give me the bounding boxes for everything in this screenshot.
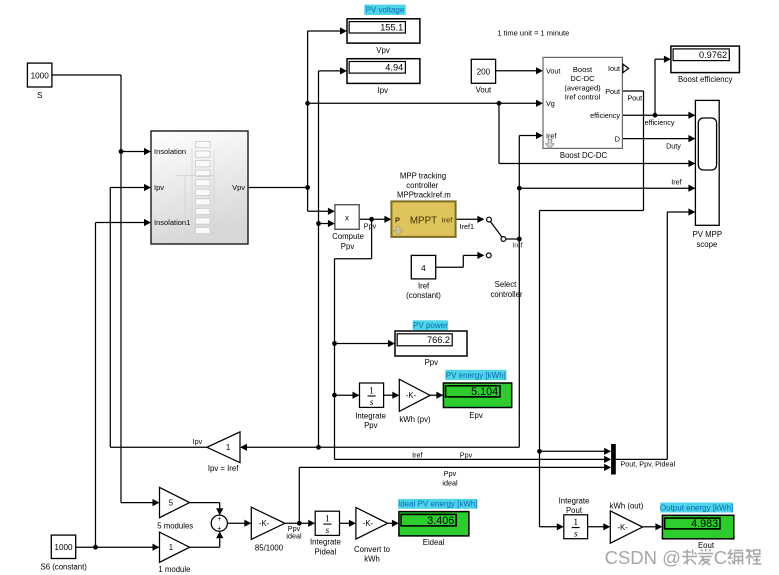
wire Ipv display net bbox=[316, 67, 347, 449]
svg-text:efficiency: efficiency bbox=[645, 118, 675, 127]
wire kWh pv chain bbox=[384, 392, 444, 399]
svg-text:Eout: Eout bbox=[698, 541, 715, 550]
display Vpv 155.1 bbox=[347, 19, 420, 43]
svg-text:-K-: -K- bbox=[363, 519, 374, 528]
label kWh (pv) bbox=[399, 415, 431, 424]
label efficiency wire bbox=[645, 118, 675, 127]
wire Ppv net bbox=[332, 216, 611, 463]
scope PV MPP bbox=[693, 100, 722, 248]
constant S6 1000 bbox=[41, 535, 88, 571]
svg-text:3.406: 3.406 bbox=[427, 515, 454, 527]
svg-text:1: 1 bbox=[369, 386, 374, 396]
svg-text:Iref: Iref bbox=[442, 215, 454, 224]
wire efficiency net bbox=[622, 56, 695, 119]
port marker Iout unconnected bbox=[623, 64, 629, 73]
svg-text:S6 (constant): S6 (constant) bbox=[41, 562, 88, 571]
label Eideal bbox=[423, 538, 445, 547]
wire Iref net bbox=[240, 132, 695, 451]
svg-text:Ipv = Iref: Ipv = Iref bbox=[208, 464, 239, 473]
svg-text:Ipv: Ipv bbox=[378, 86, 389, 95]
svg-text:ideal: ideal bbox=[442, 479, 458, 488]
svg-text:Insolation: Insolation bbox=[154, 147, 186, 156]
svg-text:Compute: Compute bbox=[332, 232, 364, 241]
svg-text:P: P bbox=[395, 215, 400, 224]
svg-text:0.9762: 0.9762 bbox=[699, 50, 727, 60]
annotation Output energy kWh bbox=[660, 503, 733, 513]
svg-text:5.104: 5.104 bbox=[471, 386, 498, 398]
svg-text:Ppv: Ppv bbox=[425, 358, 439, 367]
svg-text:Iref: Iref bbox=[418, 281, 430, 290]
label Eout bbox=[698, 541, 715, 550]
wire Ipv feedback net bbox=[110, 184, 207, 447]
svg-text:1 time unit = 1 minute: 1 time unit = 1 minute bbox=[497, 29, 569, 38]
label Ppv display bbox=[425, 358, 439, 367]
svg-text:Ipv: Ipv bbox=[193, 437, 203, 446]
constant S 1000 bbox=[27, 63, 52, 100]
gain 1 module bbox=[160, 532, 190, 562]
svg-text:Iref: Iref bbox=[512, 241, 522, 250]
svg-text:Vpv: Vpv bbox=[232, 183, 245, 192]
svg-text:Eideal: Eideal bbox=[423, 538, 445, 547]
svg-text:kWh (out): kWh (out) bbox=[610, 501, 644, 510]
svg-text:Select: Select bbox=[495, 280, 518, 289]
label Pout wire bbox=[627, 93, 643, 102]
label Ppv wire bottom bbox=[460, 450, 473, 459]
display Ppv 766.2 bbox=[395, 331, 467, 356]
svg-text:s: s bbox=[370, 398, 374, 408]
sum block bbox=[211, 515, 227, 532]
svg-text:(constant): (constant) bbox=[406, 291, 441, 300]
watermark CSDN bbox=[605, 547, 762, 568]
svg-text:s: s bbox=[325, 526, 329, 536]
label 5 modules bbox=[157, 522, 193, 531]
label Integrate Pout bbox=[559, 496, 590, 515]
label Boost efficiency bbox=[678, 75, 733, 84]
display Eout 4.983 bbox=[662, 515, 733, 539]
svg-text:MPPT: MPPT bbox=[410, 216, 437, 227]
svg-text:Iref: Iref bbox=[412, 450, 422, 459]
svg-text:Ipv: Ipv bbox=[154, 183, 164, 192]
svg-text:Ppv: Ppv bbox=[364, 222, 377, 231]
svg-text:ideal: ideal bbox=[286, 532, 302, 541]
wire sum chain bbox=[190, 503, 252, 548]
svg-text:+: + bbox=[217, 525, 221, 532]
label Ipv bbox=[378, 86, 389, 95]
svg-text:Pideal: Pideal bbox=[315, 547, 337, 556]
svg-text:Boost efficiency: Boost efficiency bbox=[678, 75, 733, 84]
svg-text:Epv: Epv bbox=[469, 411, 483, 420]
svg-text:kWh: kWh bbox=[364, 555, 380, 564]
label Iref wire bottom bbox=[412, 450, 422, 459]
display Epv 5.104 bbox=[443, 383, 511, 408]
label Epv bbox=[469, 411, 483, 420]
svg-text:5 modules: 5 modules bbox=[157, 522, 193, 531]
svg-text:4.983: 4.983 bbox=[691, 518, 718, 530]
svg-text:155.1: 155.1 bbox=[380, 22, 403, 32]
svg-text:Pout: Pout bbox=[627, 93, 642, 102]
svg-text:PV MPP: PV MPP bbox=[693, 230, 722, 239]
svg-text:Vout: Vout bbox=[546, 66, 560, 75]
wire S6 insolation1 net bbox=[76, 219, 160, 551]
gain kWh out bbox=[610, 511, 642, 543]
svg-text:1 module: 1 module bbox=[158, 565, 190, 574]
annotation PV voltage bbox=[364, 5, 405, 15]
svg-text:Vpv: Vpv bbox=[376, 46, 390, 55]
integrator Integrate Ppv bbox=[360, 383, 384, 408]
svg-text:x: x bbox=[345, 213, 349, 222]
label 1 module bbox=[158, 565, 190, 574]
svg-text:Vg: Vg bbox=[546, 99, 555, 108]
svg-text:+: + bbox=[217, 516, 221, 523]
svg-text:85/1000: 85/1000 bbox=[255, 544, 284, 553]
annotation Ideal PV energy kWh bbox=[398, 499, 478, 509]
block Compute Ppv bbox=[332, 205, 364, 251]
wire mux to scope bbox=[616, 208, 696, 459]
wire Iref1 MPPT to switch bbox=[456, 216, 485, 223]
integrator Integrate Pout bbox=[564, 515, 588, 540]
svg-text:766.2: 766.2 bbox=[427, 335, 450, 345]
label Convert to kWh bbox=[354, 545, 391, 564]
mux Pout Ppv Pideal bbox=[611, 444, 675, 475]
svg-text:-K-: -K- bbox=[259, 519, 270, 528]
wire kWh out chain bbox=[588, 523, 663, 530]
svg-text:-K-: -K- bbox=[617, 523, 628, 532]
svg-text:Integrate: Integrate bbox=[310, 538, 341, 547]
annotation 1 time unit = 1 minute bbox=[497, 29, 569, 38]
svg-text:1000: 1000 bbox=[54, 543, 73, 552]
svg-text:Integrate: Integrate bbox=[355, 411, 386, 420]
gain Convert to kWh bbox=[356, 508, 388, 540]
svg-text:Iref control: Iref control bbox=[565, 93, 601, 102]
svg-text:PV energy [kWh]: PV energy [kWh] bbox=[446, 371, 506, 380]
wire Iref constant to switch bbox=[436, 252, 485, 267]
svg-text:1: 1 bbox=[169, 543, 173, 552]
svg-text:Ideal PV energy [kWh]: Ideal PV energy [kWh] bbox=[398, 500, 478, 509]
annotation PV power bbox=[413, 320, 448, 330]
svg-text:1000: 1000 bbox=[31, 72, 50, 81]
annotation PV energy kWh bbox=[445, 370, 506, 380]
svg-text:Ppv: Ppv bbox=[364, 421, 378, 430]
wire Vpv net bbox=[248, 27, 695, 215]
label Ppv ideal wire left bbox=[286, 524, 302, 541]
svg-text:1: 1 bbox=[226, 443, 230, 452]
constant Vout 200 bbox=[471, 59, 495, 94]
label Duty wire bbox=[666, 141, 681, 150]
gain 5 modules bbox=[160, 487, 190, 517]
gain kWh pv bbox=[399, 379, 430, 411]
block MPPT controller bbox=[391, 171, 455, 237]
svg-text:CSDN @: CSDN @ bbox=[605, 547, 681, 568]
gain Ipv = Iref bbox=[193, 432, 240, 473]
svg-text:Vout: Vout bbox=[476, 86, 492, 95]
svg-text:Iref: Iref bbox=[546, 131, 556, 140]
svg-text:Pout: Pout bbox=[605, 87, 620, 96]
svg-text:4.94: 4.94 bbox=[385, 62, 403, 72]
svg-text:Pout, Ppv, Pideal: Pout, Ppv, Pideal bbox=[621, 460, 676, 469]
svg-text:PV voltage: PV voltage bbox=[366, 6, 405, 15]
gain 85/1000 bbox=[251, 507, 285, 539]
svg-text:MPPtrackIref.m: MPPtrackIref.m bbox=[397, 191, 451, 200]
svg-text:DC-DC: DC-DC bbox=[570, 74, 595, 83]
wire Vout net bbox=[496, 67, 543, 74]
svg-text:200: 200 bbox=[477, 68, 491, 77]
svg-text:-K-: -K- bbox=[406, 391, 417, 400]
label Integrate Ppv bbox=[355, 411, 386, 430]
svg-text:s: s bbox=[574, 529, 578, 539]
svg-text:Iref1: Iref1 bbox=[460, 222, 474, 231]
svg-text:controller: controller bbox=[406, 181, 438, 190]
label Vpv bbox=[376, 46, 390, 55]
svg-text:Ppv: Ppv bbox=[460, 450, 473, 459]
svg-text:S: S bbox=[37, 91, 42, 100]
svg-text:Integrate: Integrate bbox=[559, 496, 590, 505]
svg-text:(averaged): (averaged) bbox=[564, 83, 601, 92]
label Iref wire scope bbox=[671, 178, 681, 187]
manual switch Select controller bbox=[486, 217, 523, 299]
wire Pout net bbox=[537, 91, 643, 530]
svg-text:Output energy [kWh]: Output energy [kWh] bbox=[660, 504, 733, 513]
svg-text:Boost: Boost bbox=[573, 65, 593, 74]
svg-text:Insolation1: Insolation1 bbox=[154, 218, 190, 227]
svg-text:Duty: Duty bbox=[666, 141, 681, 150]
svg-text:scope: scope bbox=[696, 240, 717, 249]
wire Pideal net bbox=[285, 464, 611, 527]
svg-text:kWh (pv): kWh (pv) bbox=[399, 415, 431, 424]
label Integrate Pideal bbox=[310, 538, 341, 557]
svg-text:1: 1 bbox=[325, 515, 330, 525]
subsystem Boost DC-DC bbox=[543, 57, 622, 160]
svg-text:1: 1 bbox=[573, 518, 578, 528]
svg-text:PV power: PV power bbox=[413, 321, 448, 330]
svg-text:4: 4 bbox=[421, 264, 426, 273]
svg-text:Pout: Pout bbox=[566, 506, 583, 515]
constant Iref 4 bbox=[406, 255, 441, 300]
svg-text:MPP tracking: MPP tracking bbox=[400, 171, 446, 180]
wire Duty net bbox=[622, 135, 695, 142]
svg-text:5: 5 bbox=[169, 498, 174, 507]
svg-text:D: D bbox=[615, 134, 620, 143]
display Ipv 4.94 bbox=[347, 59, 420, 84]
wire ideal energy chain bbox=[340, 520, 399, 527]
display Boost efficiency 0.9762 bbox=[671, 46, 740, 73]
svg-text:Boost DC-DC: Boost DC-DC bbox=[560, 151, 608, 160]
label kWh (out) bbox=[610, 501, 644, 510]
wire S insolation net bbox=[52, 75, 160, 506]
label Ppv wire bbox=[364, 222, 377, 231]
display Eideal 3.406 bbox=[399, 512, 469, 536]
label Iref1 wire bbox=[460, 222, 474, 231]
svg-text:controller: controller bbox=[490, 290, 522, 299]
svg-text:Convert to: Convert to bbox=[354, 545, 391, 554]
svg-text:Ppv: Ppv bbox=[444, 469, 457, 478]
label 85/1000 bbox=[255, 544, 284, 553]
integrator Integrate Pideal bbox=[315, 511, 339, 536]
subsystem PV array bbox=[151, 131, 248, 244]
label Ppv ideal wire mid bbox=[442, 469, 458, 488]
svg-text:efficiency: efficiency bbox=[590, 111, 620, 120]
svg-text:Iout: Iout bbox=[608, 64, 620, 73]
svg-text:C: C bbox=[714, 547, 727, 568]
svg-text:Ppv: Ppv bbox=[341, 242, 355, 251]
svg-text:Iref: Iref bbox=[671, 178, 681, 187]
